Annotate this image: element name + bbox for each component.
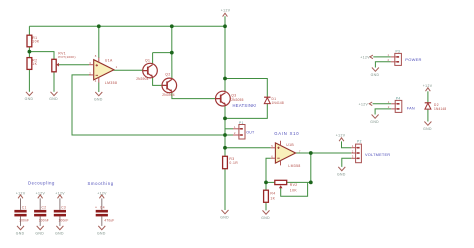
+12V supply P3 xyxy=(360,55,373,59)
svg-text:2: 2 xyxy=(388,58,390,62)
svg-text:1: 1 xyxy=(352,144,354,148)
svg-text:3: 3 xyxy=(89,61,91,65)
wire rail down to Q3 collector xyxy=(224,26,226,91)
ground under R4 xyxy=(261,210,270,219)
wire Q3 collector to D1 cathode xyxy=(225,79,267,98)
wire RV2 left terminal xyxy=(266,181,275,183)
svg-text:7: 7 xyxy=(299,149,301,153)
ground under R3 xyxy=(220,210,229,219)
wire RV1 wiper to U1A pin3 xyxy=(59,64,89,66)
svg-text:GND: GND xyxy=(35,231,44,235)
wire U1B output to P2 pin2 xyxy=(296,152,352,154)
wire R2 to ground xyxy=(28,69,30,91)
ground C2 xyxy=(35,226,44,235)
ground under RV1 xyxy=(49,92,58,101)
transistor Q2 xyxy=(162,73,177,98)
diode D1 xyxy=(264,97,284,105)
transistor Q1 xyxy=(136,59,157,82)
capacitor C4 polarized xyxy=(95,198,114,226)
svg-text:+12V: +12V xyxy=(16,192,26,196)
svg-text:+12V: +12V xyxy=(97,192,107,196)
wire Q3 emitter down to R3 xyxy=(224,106,226,157)
wire top +12V rail xyxy=(29,25,225,27)
+12V supply P4 xyxy=(359,102,373,107)
node rail collector branch xyxy=(170,24,174,28)
wire +12V to P3 pin1 xyxy=(373,56,391,58)
connector P3 xyxy=(388,50,422,66)
svg-text:1K: 1K xyxy=(32,62,37,66)
svg-text:GND: GND xyxy=(25,97,34,101)
svg-text:100nF: 100nF xyxy=(39,218,49,222)
node U1A power on rail xyxy=(97,24,101,28)
capacitor C2 xyxy=(34,198,49,226)
svg-text:1K: 1K xyxy=(270,197,275,201)
svg-text:2: 2 xyxy=(352,149,354,153)
svg-text:+12V: +12V xyxy=(360,55,370,59)
svg-text:C2: C2 xyxy=(42,205,47,209)
wire R1 to R2 xyxy=(28,47,30,58)
wire feedback node to U1A pin2 xyxy=(72,75,225,135)
svg-text:470uF: 470uF xyxy=(104,218,114,222)
wire RV2 wiper loop xyxy=(281,183,308,196)
svg-text:P3: P3 xyxy=(396,50,401,54)
wire +12V to P2 pin1 xyxy=(342,141,352,147)
svg-text:8: 8 xyxy=(95,54,97,58)
wire D2 anode to ground xyxy=(427,109,429,121)
wire D1 anode to emitter node xyxy=(225,104,267,119)
svg-text:Q1: Q1 xyxy=(145,59,150,63)
capacitor C3 xyxy=(54,198,69,226)
svg-text:1: 1 xyxy=(234,125,236,129)
+12V supply C4 xyxy=(97,192,107,199)
svg-text:100nF: 100nF xyxy=(19,218,29,222)
wire collector node row xyxy=(153,52,172,54)
wire Q2 emitter to Q3 base xyxy=(172,92,216,98)
wire Q1 emitter to Q2 base xyxy=(153,77,163,85)
svg-text:FAN: FAN xyxy=(407,107,415,111)
svg-text:2: 2 xyxy=(234,131,236,135)
wire +12V to P4 pin1 xyxy=(373,103,392,105)
wire U1A output to Q1 base xyxy=(114,69,143,71)
wire U1A power stub to rail xyxy=(98,26,100,58)
wire node to Q2 collector xyxy=(171,53,173,79)
svg-text:4: 4 xyxy=(95,79,97,83)
+12V supply P2 xyxy=(336,134,346,142)
node Q1/Q2 collector xyxy=(170,51,174,55)
svg-text:1N4148: 1N4148 xyxy=(434,107,446,111)
node U1B output xyxy=(309,151,313,155)
svg-text:POT(100K): POT(100K) xyxy=(58,55,75,59)
svg-text:P4: P4 xyxy=(396,96,401,100)
resistor R4 xyxy=(264,190,276,202)
ground D2 xyxy=(423,122,432,132)
+12V supply D2 xyxy=(423,84,433,91)
svg-text:GND: GND xyxy=(97,231,106,235)
op-amp U1B xyxy=(271,131,301,168)
svg-text:C3: C3 xyxy=(61,205,66,209)
svg-text:GND: GND xyxy=(370,120,379,124)
node R1/R2 junction xyxy=(28,50,32,54)
svg-text:VOLTMETER: VOLTMETER xyxy=(365,152,390,157)
svg-text:5: 5 xyxy=(271,144,273,148)
svg-text:GND: GND xyxy=(16,231,25,235)
svg-text:HEATSINK!: HEATSINK! xyxy=(233,103,257,108)
svg-text:P1: P1 xyxy=(239,121,244,125)
svg-text:P2: P2 xyxy=(357,140,362,144)
connector P4 xyxy=(388,96,415,112)
resistor R2 xyxy=(27,58,38,70)
svg-text:Smoothing: Smoothing xyxy=(88,181,114,186)
svg-text:Decoupling: Decoupling xyxy=(28,181,55,186)
svg-text:GAIN X10: GAIN X10 xyxy=(274,131,299,136)
svg-text:U1A: U1A xyxy=(105,59,113,63)
ground C4 xyxy=(97,226,106,235)
node P1 pin2 / feedback xyxy=(223,133,227,137)
+12V supply C3 xyxy=(55,192,65,199)
svg-text:GND: GND xyxy=(49,97,58,101)
wire RV2 node to R4 xyxy=(265,182,267,190)
svg-text:1N4148: 1N4148 xyxy=(272,101,284,105)
ground C1 xyxy=(16,226,25,235)
svg-text:C1: C1 xyxy=(22,205,27,209)
svg-text:2: 2 xyxy=(388,105,390,109)
node Q3 emitter / D1 return xyxy=(223,117,227,121)
svg-text:+12V: +12V xyxy=(336,134,346,138)
node Q3 collector / D1 xyxy=(223,77,227,81)
wire node to U1B pin5 xyxy=(225,147,271,149)
wire node to P1 pin1 xyxy=(225,128,233,130)
svg-text:0.1R: 0.1R xyxy=(229,161,238,165)
svg-text:GND: GND xyxy=(94,97,103,101)
svg-text:1: 1 xyxy=(116,65,118,69)
svg-text:10K: 10K xyxy=(290,189,298,193)
node RV2 left / R4 xyxy=(264,181,268,185)
svg-text:1: 1 xyxy=(388,53,390,57)
wire P4 pin2 to ground xyxy=(375,109,391,115)
svg-text:3: 3 xyxy=(352,155,354,159)
resistor R3 xyxy=(223,156,239,168)
svg-text:+12V: +12V xyxy=(221,9,231,13)
resistor R1 xyxy=(27,35,40,47)
node U1B pin5 branch xyxy=(223,146,227,150)
svg-text:Q2: Q2 xyxy=(165,73,170,77)
wire RV1 to ground xyxy=(53,72,55,92)
wire R4 to ground xyxy=(265,202,267,210)
+12V supply C1 xyxy=(16,192,26,199)
svg-text:GND: GND xyxy=(220,215,229,219)
svg-text:R4: R4 xyxy=(270,192,275,196)
connector P1 xyxy=(233,121,255,139)
svg-text:LM358: LM358 xyxy=(105,81,117,85)
ground under R2 xyxy=(25,92,34,101)
ground P4 xyxy=(370,115,379,124)
wire U1A ground stub xyxy=(98,83,100,93)
ground P3 xyxy=(371,68,380,77)
svg-text:+12V: +12V xyxy=(36,192,46,196)
svg-text:+: + xyxy=(95,205,97,209)
wire node to P1 pin2 xyxy=(225,134,233,136)
svg-text:GND: GND xyxy=(423,127,432,131)
wire P3 pin2 to ground xyxy=(375,62,390,68)
svg-text:POWER: POWER xyxy=(405,57,421,62)
wire U1B pin6 to RV2 node xyxy=(266,158,271,182)
svg-text:GND: GND xyxy=(337,172,346,176)
svg-text:U1B: U1B xyxy=(286,143,294,147)
potentiometer RV1 xyxy=(52,51,76,71)
node RV2 right / output xyxy=(309,181,313,185)
wire P2 pin3 to ground xyxy=(342,158,352,167)
wire +12V to D2 cathode xyxy=(427,91,429,103)
svg-text:2N3904: 2N3904 xyxy=(136,77,148,81)
+12V supply top rail xyxy=(221,9,231,17)
svg-text:+12V: +12V xyxy=(359,103,369,107)
wire rail to collector node xyxy=(171,26,173,52)
potentiometer RV2 xyxy=(275,180,298,192)
svg-text:1: 1 xyxy=(388,100,390,104)
connector P2 xyxy=(351,140,390,163)
wire +12V stub right xyxy=(224,16,226,26)
transistor Q3 xyxy=(216,91,257,108)
svg-text:2N3055: 2N3055 xyxy=(231,98,243,102)
svg-text:LM358: LM358 xyxy=(288,164,300,168)
+12V supply C2 xyxy=(36,192,46,199)
svg-text:C4: C4 xyxy=(100,205,105,209)
svg-text:10K: 10K xyxy=(32,40,40,44)
wire Q1 collector up xyxy=(152,53,154,64)
wire node to RV1 top xyxy=(29,52,54,60)
svg-text:GND: GND xyxy=(261,216,270,220)
svg-text:+12V: +12V xyxy=(423,84,433,88)
svg-text:GND: GND xyxy=(55,231,64,235)
svg-text:6: 6 xyxy=(271,155,273,159)
svg-text:100nF: 100nF xyxy=(59,218,69,222)
capacitor C1 xyxy=(14,198,29,226)
svg-text:2N3904: 2N3904 xyxy=(162,93,174,97)
diode D2 xyxy=(425,103,447,111)
wire R1 top stub xyxy=(28,26,30,35)
node +12V rail right xyxy=(223,24,227,28)
svg-text:OUT: OUT xyxy=(246,131,255,135)
ground P2 xyxy=(337,167,346,176)
svg-text:RV2: RV2 xyxy=(290,183,298,187)
wire R3 to ground xyxy=(224,169,226,210)
wire output down to RV2 xyxy=(310,153,312,182)
ground under U1A xyxy=(94,92,103,101)
svg-text:+12V: +12V xyxy=(55,192,65,196)
op-amp U1A xyxy=(89,54,118,85)
svg-text:2: 2 xyxy=(89,71,91,75)
svg-text:GND: GND xyxy=(371,73,380,77)
ground C3 xyxy=(55,226,64,235)
wire RV2 right terminal xyxy=(287,181,311,183)
